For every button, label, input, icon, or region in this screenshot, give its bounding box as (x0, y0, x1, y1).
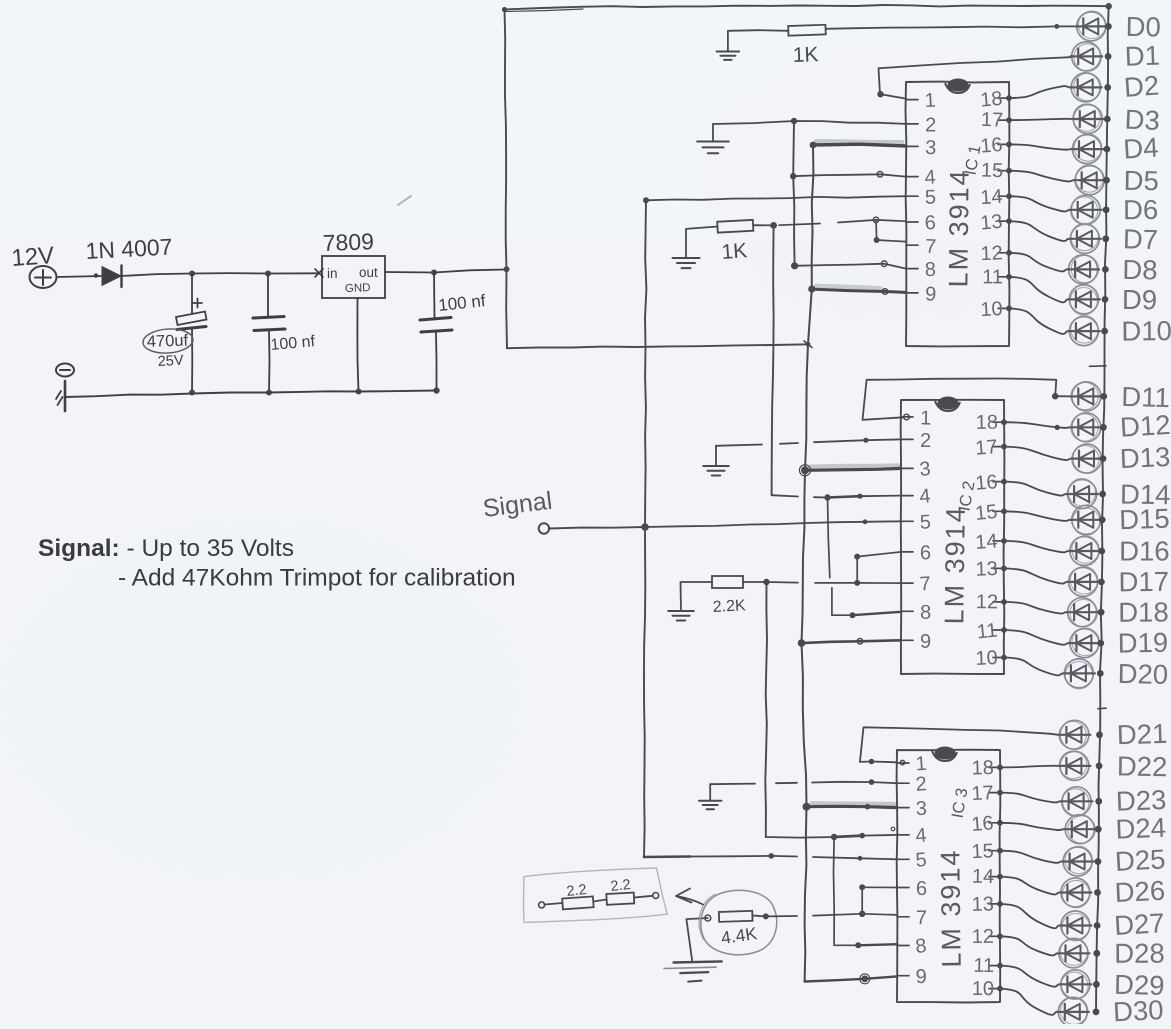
svg-text:- Add 47Kohm Trimpot for calib: - Add 47Kohm Trimpot for calibration (118, 565, 516, 592)
IC IC3 pin 9 stub (897, 966, 927, 989)
svg-text:6: 6 (920, 542, 931, 564)
wire IC3 pin1 to D21 (860, 727, 1059, 764)
svg-text:5: 5 (919, 511, 931, 533)
wire pin to D27 (997, 901, 1060, 928)
rail junction D0 (1105, 23, 1112, 30)
label D10 (1121, 315, 1171, 346)
label 470uf circled (142, 327, 194, 354)
label 100nf C3 (437, 291, 486, 315)
IC IC2 pin 6 stub (901, 542, 931, 564)
rail junction D13 (1100, 455, 1107, 462)
label D21 (1116, 718, 1167, 750)
wire out to V+ corner (434, 270, 506, 273)
rail junction D27 (1094, 922, 1101, 929)
svg-text:2.2: 2.2 (566, 882, 588, 900)
wire pin to D5 (1006, 168, 1074, 182)
svg-text:D12: D12 (1119, 409, 1171, 443)
label D13 (1119, 441, 1171, 474)
LED D3 (1072, 104, 1104, 134)
gnd bus x794 (793, 121, 794, 266)
label 2.2K (712, 597, 746, 616)
label 1K R1 (792, 43, 818, 67)
svg-text:D0: D0 (1125, 11, 1161, 43)
wire IC3 pin5 (644, 853, 897, 861)
IC2 pin1 terminal (904, 414, 910, 420)
LED D27 (1059, 911, 1091, 941)
label D28 (1114, 938, 1165, 969)
label D26 (1114, 875, 1166, 908)
ref bus x773 (772, 225, 774, 495)
rail junction D8 (1102, 266, 1109, 273)
note wire 2 (593, 900, 606, 902)
label 7809 (322, 228, 374, 256)
LED D29 (1059, 970, 1091, 1000)
svg-text:D25: D25 (1114, 843, 1166, 877)
label out (359, 265, 378, 280)
wire IC3 pin9 (805, 974, 897, 984)
svg-text:13: 13 (975, 558, 998, 581)
LED D22 (1058, 751, 1090, 780)
LED D26 (1059, 878, 1091, 908)
IC IC1 pin 1 stub (906, 89, 936, 112)
IC IC3 pin 12 stub (972, 926, 1000, 948)
LED D28 (1058, 938, 1090, 968)
wire pin to D2 (1006, 86, 1070, 101)
label D25 (1114, 843, 1166, 877)
wire pin to D3 (1006, 117, 1072, 123)
IC IC3 pin 7 stub (897, 907, 927, 929)
svg-text:10: 10 (972, 978, 994, 1000)
resistor R4 4.4K (705, 911, 753, 922)
regulator U4 7809 box (322, 256, 385, 298)
IC IC2 pin 9 stub (901, 631, 931, 653)
IC IC1 pin 17 stub (981, 109, 1009, 132)
label D11 (1121, 381, 1170, 413)
wire R2 to IC1 pin6 (753, 217, 906, 229)
IC IC3 pin 4 stub (897, 825, 928, 848)
wire IC1 pin8 (791, 261, 906, 269)
IC IC3 pin 2 stub (897, 773, 927, 796)
minus terminal stub (56, 381, 65, 411)
LED D9 (1068, 285, 1100, 315)
svg-text:13: 13 (979, 211, 1003, 235)
svg-text:D5: D5 (1123, 165, 1159, 197)
label D4 (1122, 132, 1159, 165)
LED D11 (1070, 382, 1102, 411)
label D12 (1119, 409, 1171, 443)
svg-text:9: 9 (915, 966, 927, 989)
LED D25 (1062, 846, 1094, 876)
wire node A to node B (192, 271, 271, 277)
IC IC2 pin 16 stub (975, 471, 1004, 495)
smudge IC2 pin3 (810, 466, 898, 467)
LED D20 (1063, 659, 1095, 689)
wire IC1 pin4 (790, 172, 906, 180)
wire IC3 pin2 (710, 779, 897, 785)
wire pin to D13 (1001, 444, 1071, 460)
label LM3914 IC2 (939, 505, 971, 624)
IC IC1 pin 10 stub (980, 298, 1009, 321)
ground G3 (673, 227, 718, 269)
V+ link wire y347 (507, 341, 812, 348)
IC IC2 pin 10 stub (975, 647, 1004, 670)
svg-text:8: 8 (914, 935, 927, 958)
svg-text:10: 10 (980, 298, 1004, 321)
IC IC1 pin 16 stub (979, 134, 1009, 158)
wire pin to D24 (997, 820, 1064, 830)
svg-text:18: 18 (971, 757, 994, 780)
IC IC1 pin 13 stub (979, 211, 1009, 235)
V+ riser wire x507 (502, 7, 510, 348)
wire plus to diode (57, 273, 102, 277)
note wire 3 (634, 896, 653, 898)
smudge IC1 pin9 (816, 286, 880, 288)
LED D30 (1057, 997, 1089, 1026)
svg-text:D21: D21 (1116, 718, 1167, 750)
wire IC1 pin6-7 jog (874, 220, 906, 243)
label in (327, 266, 338, 281)
IC IC2 pin 15 stub (974, 501, 1004, 525)
IC IC1 pin 11 stub (982, 266, 1009, 288)
rail tick 1 (1090, 365, 1107, 368)
note resistor 2.2 b (606, 893, 634, 905)
svg-text:LM 3914: LM 3914 (935, 848, 966, 967)
svg-text:2.2K: 2.2K (712, 597, 746, 616)
IC IC2 pin 1 stub (901, 407, 931, 429)
diode D4 1N4007 (102, 266, 122, 288)
svg-text:1: 1 (920, 407, 932, 429)
IC IC3 pin 3 stub (897, 798, 927, 820)
LED D13 (1071, 444, 1103, 473)
note right terminal (653, 893, 659, 899)
label 1K R2 (721, 239, 748, 264)
label D15 (1119, 503, 1170, 536)
label D7 (1123, 223, 1159, 255)
sketch circle around R4 (699, 890, 777, 954)
label D3 (1124, 104, 1161, 137)
wire R3 to IC2 pin7 (743, 579, 901, 586)
svg-text:18: 18 (979, 88, 1003, 112)
LED D17 (1067, 567, 1099, 597)
rail junction D22 (1096, 763, 1103, 770)
svg-text:7809: 7809 (322, 228, 374, 256)
rail junction D29 (1093, 981, 1100, 988)
capacitor C1 470uF plates (176, 299, 207, 330)
wire pin to D20 (1001, 655, 1063, 676)
svg-text:17: 17 (971, 782, 994, 805)
rail junction D6 (1103, 206, 1110, 213)
LED D2 (1070, 73, 1102, 102)
IC3 pin1 terminal (900, 760, 904, 764)
label D18 (1118, 596, 1169, 627)
label LM3914 IC1 (943, 168, 974, 287)
svg-text:5: 5 (925, 187, 936, 209)
svg-text:D7: D7 (1123, 223, 1159, 255)
resistor R3 2.2K (712, 576, 743, 588)
capacitor C1 470uF lead (191, 274, 193, 313)
junction near D12 (1055, 425, 1060, 430)
wire pin to D18 (1001, 599, 1067, 614)
svg-text:3: 3 (925, 137, 937, 159)
rail junction D1 (1105, 53, 1112, 60)
wire IC3 pin4-pin8 link (834, 837, 898, 948)
svg-text:16: 16 (971, 812, 995, 836)
IC IC1 pin 4 stub (906, 166, 936, 189)
label D19 (1117, 627, 1168, 659)
note wire 1 (545, 903, 563, 905)
LED D8 (1067, 255, 1099, 284)
IC IC2 pin 13 stub (975, 558, 1004, 581)
svg-text:Signal: - Up to 35 Volts: Signal: - Up to 35 Volts (38, 535, 294, 562)
svg-text:5: 5 (915, 849, 928, 872)
wire R4 to IC3 pin7 (752, 911, 897, 920)
IC IC2 pin 14 stub (975, 530, 1004, 554)
IC IC1 pin 14 stub (980, 186, 1009, 209)
LED D0 (1075, 11, 1107, 41)
wire pin to D8 (1006, 250, 1068, 272)
LED D5 (1074, 165, 1106, 195)
wire IC1 pin5 (646, 196, 906, 200)
plus input terminal (30, 266, 57, 288)
svg-text:D9: D9 (1122, 284, 1157, 315)
svg-text:6: 6 (916, 878, 927, 900)
ground G4 (703, 446, 729, 476)
wire IC1 pin1 to D1 (877, 57, 1070, 98)
wire R1 to D0 (826, 24, 1076, 29)
label D29 (1114, 969, 1165, 1001)
rail junction D20 (1097, 670, 1104, 677)
printed note line2 (118, 565, 516, 592)
wire pin to D12 (1001, 419, 1071, 428)
rail junction D14 (1099, 491, 1106, 498)
label D30 (1112, 994, 1164, 1027)
wire pin to D14 (1001, 479, 1067, 496)
svg-text:14: 14 (975, 530, 999, 554)
rail junction D19 (1097, 640, 1104, 647)
rail junction D25 (1095, 858, 1102, 865)
label D22 (1117, 750, 1168, 782)
label D23 (1115, 784, 1167, 817)
faint tick (398, 196, 411, 205)
label GND (345, 282, 371, 295)
wire IC2 pin2 (716, 438, 901, 446)
IC IC1 pin 18 stub (979, 88, 1009, 112)
LED D14 (1066, 479, 1098, 509)
signal terminal (539, 523, 549, 533)
wire IC3 pin4 (766, 827, 897, 840)
rail junction D12 (1100, 424, 1107, 431)
LED D1 (1070, 42, 1102, 71)
label 4.4K (720, 923, 759, 948)
svg-text:D22: D22 (1117, 750, 1168, 782)
rail junction D3 (1104, 116, 1111, 123)
label D17 (1118, 566, 1169, 598)
label D27 (1113, 907, 1165, 941)
svg-text:25V: 25V (157, 353, 184, 370)
svg-text:D19: D19 (1117, 627, 1168, 659)
ground G5 (668, 582, 712, 621)
LED D12 (1070, 413, 1102, 442)
IC IC3 pin 8 stub (897, 935, 928, 958)
printed note line1 (38, 535, 294, 562)
svg-text:10: 10 (975, 647, 998, 670)
svg-text:4: 4 (915, 825, 928, 848)
svg-text:2: 2 (920, 430, 931, 452)
label IC3 (949, 787, 972, 820)
wire IC2 pin6-7 jog (854, 552, 901, 583)
LED D19 (1068, 628, 1100, 657)
IC IC1 pin 7 stub (906, 236, 937, 258)
svg-text:D16: D16 (1119, 536, 1169, 567)
label D14 (1120, 479, 1171, 511)
label 12V (11, 242, 55, 272)
minus input terminal (56, 364, 74, 377)
wire pin to D15 (1001, 508, 1071, 521)
svg-text:D8: D8 (1122, 254, 1158, 286)
LED anode rail (1096, 6, 1109, 1014)
IC IC1 pin 15 stub (981, 160, 1009, 183)
rail junction D11 (1100, 393, 1107, 400)
rail junction D17 (1098, 579, 1105, 586)
IC IC3 pin 17 stub (971, 782, 1000, 805)
wire pin to D29 (997, 963, 1060, 987)
IC IC3 pin 6 stub (897, 878, 927, 900)
label LM3914 IC3 (935, 848, 966, 967)
capacitor C3 100nf plates (420, 318, 452, 333)
svg-text:470uf: 470uf (147, 332, 189, 351)
note label 2.2 b (610, 877, 632, 895)
svg-text:8: 8 (920, 602, 931, 624)
rail junction D15 (1099, 516, 1106, 523)
IC IC2 pin 4 stub (901, 485, 932, 508)
svg-text:D4: D4 (1122, 132, 1159, 165)
rail junction D21 (1096, 731, 1103, 738)
svg-text:in: in (327, 266, 338, 281)
IC IC3 notch (932, 747, 957, 762)
IC box IC1 LM3914 (906, 82, 1010, 347)
svg-text:11: 11 (973, 955, 994, 977)
svg-text:17: 17 (975, 436, 999, 460)
svg-text:GND: GND (345, 282, 371, 295)
svg-text:D28: D28 (1114, 938, 1165, 969)
svg-text:1: 1 (915, 753, 928, 776)
ground G2 (697, 124, 729, 153)
wire pin to D23 (997, 790, 1061, 803)
IC IC1 pin 9 stub (906, 283, 937, 305)
wire pin to D30 (997, 986, 1057, 1015)
svg-text:out: out (359, 265, 378, 280)
IC IC1 pin 12 stub (980, 242, 1009, 265)
wire IC2 pin4 (772, 494, 901, 501)
note left terminal (539, 902, 545, 908)
svg-text:14: 14 (980, 186, 1004, 209)
label D9 (1122, 284, 1157, 315)
svg-text:D6: D6 (1123, 194, 1158, 225)
svg-text:2.2: 2.2 (610, 877, 632, 895)
wire pin to D10 (1006, 306, 1068, 334)
resistor R1 1K (788, 25, 826, 36)
label D5 (1123, 165, 1159, 197)
IC box IC3 LM3914 (897, 750, 1001, 1003)
wire pin to D28 (997, 933, 1058, 955)
wire IC2 pin1 to D11 (863, 379, 1071, 420)
svg-text:7: 7 (919, 573, 931, 596)
label IC1 (962, 144, 985, 177)
rail junction D9 (1102, 296, 1109, 303)
rail junction D16 (1098, 548, 1105, 555)
label D2 (1123, 70, 1160, 103)
wire pin to D4 (1006, 142, 1071, 150)
capacitor C2 100nf leads (266, 274, 272, 396)
svg-text:D26: D26 (1114, 875, 1166, 908)
svg-text:3: 3 (916, 798, 928, 820)
svg-text:15: 15 (971, 840, 994, 863)
label D1 (1124, 40, 1160, 72)
svg-text:1K: 1K (792, 43, 818, 67)
svg-text:11: 11 (976, 620, 999, 644)
svg-text:LM 3914: LM 3914 (939, 505, 971, 624)
LED D23 (1061, 787, 1093, 816)
signal wire to IC2 pin5 (645, 519, 901, 527)
LED D16 (1068, 536, 1100, 566)
wire IC1 pin9 (808, 286, 906, 295)
wire pin to D6 (1006, 193, 1070, 211)
IC IC3 pin 5 stub (897, 849, 927, 872)
label D0 (1125, 11, 1161, 43)
IC IC3 pin 16 stub (971, 812, 1000, 836)
LED D21 (1058, 720, 1090, 749)
wire pin to D19 (1001, 627, 1069, 645)
rail junction D24 (1095, 826, 1102, 833)
LED D7 (1069, 223, 1101, 253)
IC IC2 pin 12 stub (976, 591, 1004, 613)
svg-text:D20: D20 (1117, 658, 1168, 690)
svg-text:D2: D2 (1123, 70, 1160, 103)
smudge IC1 pin3 (816, 142, 902, 143)
rail junction D5 (1103, 177, 1110, 184)
rail junction D30 (1093, 1009, 1100, 1016)
svg-text:15: 15 (981, 160, 1004, 183)
IC IC2 pin 7 stub (901, 573, 931, 596)
ref bus x766 (765, 582, 767, 837)
note arrow (676, 889, 703, 905)
wire IC3 pin6-7 jog (859, 884, 897, 914)
label D16 (1119, 536, 1169, 567)
wire pin to D26 (997, 874, 1060, 895)
svg-text:2: 2 (925, 114, 936, 136)
wire pin to D16 (1001, 538, 1069, 552)
wire pin to D9 (1006, 274, 1068, 302)
handwritten Signal (481, 487, 553, 523)
resistor R2 1K (717, 220, 753, 233)
note sketch box (523, 868, 667, 922)
IC IC2 pin 5 stub (901, 511, 931, 533)
IC IC2 pin 8 stub (901, 602, 931, 624)
label D24 (1115, 812, 1167, 845)
wire diode to node A (121, 271, 195, 277)
note label 2.2 a (566, 882, 588, 900)
capacitor C2 100nf plates (253, 317, 285, 331)
svg-text:3: 3 (919, 458, 932, 481)
capacitor C3 100nf leads (433, 273, 439, 394)
wire node B to 7809 in (268, 269, 323, 277)
wire 7809 gnd (356, 298, 362, 395)
svg-text:1: 1 (924, 89, 936, 112)
IC IC2 notch (935, 397, 960, 412)
IC IC3 pin 14 stub (972, 866, 1000, 888)
IC IC3 pin 15 stub (971, 840, 1000, 863)
svg-text:1K: 1K (721, 239, 748, 264)
